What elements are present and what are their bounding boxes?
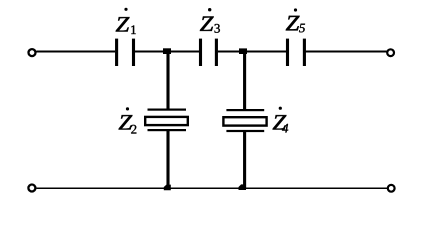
wire top: Z5 to terminal <box>305 51 387 53</box>
wire: node B down to Z4 <box>243 53 246 110</box>
crystal Z2 <box>145 109 188 132</box>
terminal input bottom-left <box>28 185 35 192</box>
wire top: Z3 to Z5 <box>218 51 286 53</box>
label Z4 <box>273 107 289 133</box>
wire: node A down to Z2 <box>166 53 169 110</box>
label Z5 <box>286 8 305 32</box>
wire: Z2 down to bottom rail <box>166 130 169 189</box>
terminal output top-right <box>387 49 394 56</box>
capacitor Z5 <box>288 39 305 66</box>
terminal output bottom-right <box>388 185 395 192</box>
wire top: Z1 to Z3 <box>135 51 199 53</box>
wire top: terminal to Z1 <box>37 51 116 53</box>
wire: Z4 down to bottom rail <box>243 131 246 189</box>
node junction bottom B <box>239 184 247 190</box>
capacitor Z1 <box>117 39 134 66</box>
node junction bottom A <box>164 185 171 191</box>
label Z1 <box>116 8 136 34</box>
crystal Z4 <box>223 109 266 132</box>
capacitor Z3 <box>201 39 217 66</box>
terminal input top-left <box>29 49 36 56</box>
wire bottom rail <box>37 187 388 189</box>
node junction top A <box>163 48 171 54</box>
label Z2 <box>119 107 137 133</box>
node junction top B <box>239 48 247 54</box>
label Z3 <box>200 8 220 33</box>
